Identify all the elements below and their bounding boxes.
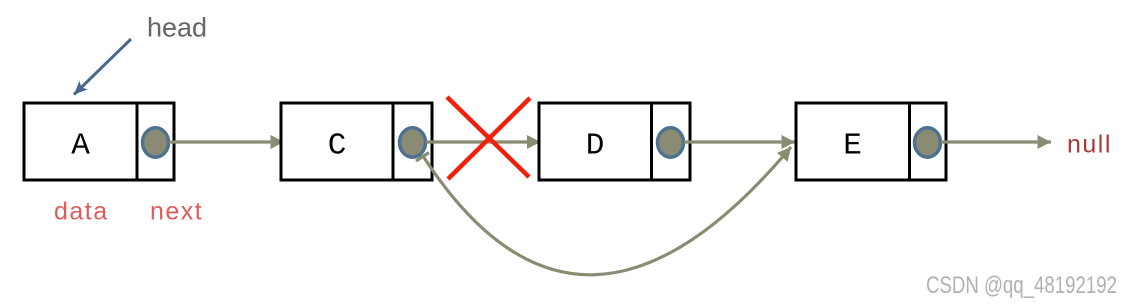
svg-text:null: null xyxy=(1067,131,1112,159)
svg-text:A: A xyxy=(71,129,90,164)
node D box xyxy=(539,103,690,180)
node E divider xyxy=(908,103,911,180)
svg-text:C: C xyxy=(328,129,347,164)
node A divider xyxy=(136,103,139,180)
curved wire C to E (bypass) xyxy=(423,147,791,275)
node D divider xyxy=(650,103,653,180)
wire A to C xyxy=(169,140,284,143)
node C next pointer oval xyxy=(400,128,426,157)
wire D to E xyxy=(684,140,795,143)
node E box xyxy=(796,103,946,180)
svg-text:D: D xyxy=(586,129,605,164)
svg-text:head: head xyxy=(147,13,207,43)
curved wire start crossbar xyxy=(416,153,429,162)
svg-text:E: E xyxy=(843,129,862,164)
svg-text:CSDN @qq_48192192: CSDN @qq_48192192 xyxy=(926,272,1117,299)
wire C to D (deleted link) xyxy=(426,140,541,143)
head arrow xyxy=(74,39,131,95)
node C divider xyxy=(392,103,395,180)
node D next pointer oval xyxy=(658,128,684,157)
node A next pointer oval xyxy=(143,128,169,157)
node C box xyxy=(281,103,432,180)
red X delete mark xyxy=(447,97,529,177)
node A box xyxy=(24,103,174,180)
svg-text:data: data xyxy=(54,198,109,226)
wire E to null xyxy=(941,140,1051,143)
svg-text:next: next xyxy=(150,198,203,226)
node E next pointer oval xyxy=(915,128,941,157)
